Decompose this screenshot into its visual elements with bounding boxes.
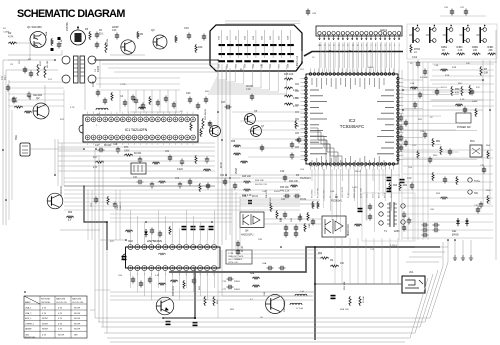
resistor R19 [149, 96, 151, 105]
bus wire thick [304, 52, 403, 57]
svg-text:R32 4W/16: R32 4W/16 [205, 108, 207, 120]
svg-text:CLOCK ON: CLOCK ON [56, 302, 67, 304]
capacitor C29 K0.001 [139, 157, 141, 160]
svg-text:1.2K: 1.2K [61, 39, 63, 44]
IC U2 TC9349AFG [306, 74, 398, 164]
svg-text:0.01: 0.01 [155, 275, 160, 277]
capacitor C4Z [284, 175, 286, 178]
resistor R4B2 [472, 53, 480, 55]
wire mid horizontals [230, 174, 400, 176]
svg-text:C89: C89 [312, 13, 317, 15]
capacitor C1/2 [417, 61, 419, 64]
svg-text:A51: A51 [403, 184, 408, 187]
capacitor C19 K0.001 [251, 94, 253, 97]
resistor R4D [307, 212, 309, 221]
resistor R6B [252, 285, 260, 287]
capacitor C43 [179, 182, 181, 185]
svg-text:C17: C17 [95, 144, 100, 147]
svg-text:0.022: 0.022 [177, 169, 183, 171]
svg-text:4.7/6.3: 4.7/6.3 [390, 245, 397, 247]
op-amp IC1 TA2142FN [83, 115, 198, 142]
svg-text:C77: C77 [222, 289, 227, 291]
svg-text:R5D: R5D [433, 155, 438, 157]
svg-text:OSC1 MUTE: OSC1 MUTE [342, 186, 344, 198]
svg-text:4.7K: 4.7K [58, 318, 63, 320]
capacitor C30 B06 [28, 92, 30, 95]
resistor R4L 47K [270, 203, 272, 212]
wire jk1 feed [315, 283, 402, 285]
resistor R52b [320, 257, 329, 259]
capacitor C25 [205, 97, 207, 100]
resistor R36 [233, 145, 241, 147]
wire bus bottom6 [110, 341, 405, 343]
capacitor C82 [191, 226, 196, 228]
svg-text:C91: C91 [460, 7, 465, 9]
transistor Q2A [121, 40, 135, 54]
resistor R5B [461, 86, 463, 96]
svg-text:OSC = 1M2AM#F: OSC = 1M2AM#F [228, 258, 243, 261]
capacitor C17B [97, 90, 99, 93]
optocoupler Q4 HN2C01FU [240, 212, 264, 228]
svg-text:2B.47: 2B.47 [242, 245, 244, 252]
svg-text:C3.1: C3.1 [19, 59, 21, 64]
svg-text:HO.4W: HO.4W [47, 61, 49, 68]
resistor R91 [158, 283, 166, 285]
svg-text:22B: 22B [258, 239, 262, 241]
wire [430, 79, 483, 81]
resistor R92 [170, 280, 178, 282]
resistor R54 10K [330, 265, 339, 267]
wire stair [310, 128, 326, 162]
svg-text:OTHER_1: OTHER_1 [25, 323, 35, 325]
svg-text:6: 6 [375, 45, 377, 47]
svg-text:C43: C43 [175, 178, 180, 180]
svg-text:BAND: BAND [452, 234, 459, 237]
capacitor C38 [433, 224, 436, 226]
svg-text:24: 24 [180, 111, 183, 113]
svg-text:20.1: 20.1 [99, 34, 104, 36]
svg-text:C90: C90 [444, 7, 449, 9]
capacitor C27 [104, 98, 106, 101]
resistor R4M [304, 223, 306, 232]
svg-text:R7B: R7B [445, 75, 450, 77]
svg-text:R77: R77 [110, 241, 115, 243]
svg-text:C13: C13 [112, 29, 117, 32]
svg-text:HN2C01FU: HN2C01FU [348, 224, 350, 236]
svg-text:PB.01: PB.01 [355, 171, 362, 173]
svg-text:C63: C63 [244, 63, 246, 68]
wire bus bottom [95, 240, 448, 318]
capacitor C32 0.022 [181, 159, 183, 162]
svg-text:USA_2: USA_2 [25, 312, 32, 315]
wire [44, 85, 46, 103]
capacitor C42b [284, 195, 287, 197]
svg-text:2200P: 2200P [112, 27, 119, 29]
svg-text:47K: 47K [93, 166, 98, 169]
capacitor C17 [98, 149, 101, 151]
resistor R56 [432, 172, 434, 181]
capacitor C4E [285, 225, 287, 228]
capacitor C94 [193, 278, 195, 281]
capacitor C45 [207, 183, 209, 186]
svg-text:R5: R5 [85, 28, 89, 31]
svg-text:10K: 10K [473, 49, 478, 52]
svg-text:Q4: Q4 [245, 230, 249, 233]
svg-text:C28: C28 [113, 144, 118, 146]
svg-text:C19: C19 [246, 88, 251, 91]
capacitor C7E [408, 218, 410, 221]
resistor R23b [24, 111, 32, 113]
capacitor C27b [225, 106, 228, 108]
svg-text:R16: R16 [198, 46, 203, 49]
svg-text:C4D: C4D [309, 223, 311, 228]
capacitor C86 [159, 231, 161, 234]
transistor Q23 [446, 27, 448, 43]
svg-text:Q3: Q3 [151, 28, 155, 32]
resistor R10 [175, 35, 177, 43]
svg-text:C17B: C17B [120, 84, 126, 86]
svg-text:JAPAN: JAPAN [25, 328, 32, 331]
transistor Q24 [462, 27, 464, 43]
wire qfp-right [403, 79, 423, 81]
resistor R38 [240, 161, 248, 163]
svg-text:K0.01: K0.01 [441, 87, 447, 89]
resistor R24 [190, 122, 192, 131]
svg-text:L3: L3 [97, 113, 100, 116]
bus wire thick3 [163, 268, 195, 318]
wire [130, 111, 180, 113]
svg-text:P0-1/SEG: P0-1/SEG [312, 189, 314, 198]
svg-text:J6: J6 [410, 63, 413, 65]
capacitor C95 2B.47 [237, 241, 239, 244]
capacitor C81 [182, 226, 187, 228]
resistor R13 180K [14, 106, 23, 108]
svg-text:10K: 10K [340, 263, 345, 265]
svg-text:16: 16 [328, 45, 331, 47]
svg-text:NO/NT: NO/NT [42, 329, 49, 331]
resistor R18 [152, 162, 160, 164]
inductor L3 [96, 108, 108, 110]
svg-text:C66: C66 [270, 35, 272, 40]
svg-text:R62: R62 [68, 212, 73, 214]
capacitor C15 [188, 33, 190, 36]
resistor R4A 10K [290, 185, 298, 187]
svg-text:PS2561#1: PS2561#1 [331, 201, 342, 203]
svg-text:C61: C61 [227, 35, 229, 40]
svg-text:R4L/47K: R4L/47K [266, 189, 268, 198]
svg-text:C8: C8 [10, 64, 14, 66]
svg-text:NO BF: NO BF [74, 308, 81, 310]
svg-text:POWER SW: POWER SW [457, 126, 471, 129]
svg-text:R59: R59 [436, 193, 441, 195]
note box [226, 250, 252, 264]
svg-text:2SD1898(M): 2SD1898(M) [284, 299, 286, 312]
capacitor C12 [13, 97, 15, 100]
svg-text:NO BF: NO BF [74, 329, 81, 331]
transistor Q8 [210, 126, 221, 137]
resistor R41 [158, 181, 166, 183]
svg-text:C4E: C4E [330, 191, 335, 193]
wire right-mid [403, 89, 470, 91]
capacitor C13 2200P [116, 33, 118, 36]
svg-text:LED4: LED4 [368, 67, 374, 69]
svg-text:C67: C67 [279, 63, 281, 68]
svg-text:4.7: 4.7 [68, 220, 72, 222]
svg-text:4.7K: 4.7K [58, 308, 63, 310]
resistor R15D 4.7K [284, 103, 293, 105]
resistor R22 B22P [37, 64, 39, 76]
svg-text:B22P: B22P [40, 60, 42, 66]
svg-text:BAND: BAND [25, 301, 31, 304]
svg-text:C4B: C4B [280, 217, 282, 222]
transistor Q2 S9C383 [33, 103, 49, 119]
dot [194, 317, 196, 319]
svg-text:R6A: R6A [250, 272, 255, 275]
transistor Q3 [153, 35, 167, 49]
capacitor C20 [157, 100, 159, 103]
resistor R15B 4.7K [284, 87, 293, 89]
wire filler [87, 190, 89, 240]
svg-text:C68: C68 [287, 35, 289, 40]
capacitor C16 [203, 34, 205, 37]
wire [110, 54, 145, 56]
resistor R64 [213, 296, 215, 306]
wire [8, 43, 30, 60]
svg-text:C76: C76 [222, 281, 227, 283]
capacitor C4F [295, 225, 297, 228]
svg-text:NO BF: NO BF [58, 335, 65, 337]
resistor R4B2 10K [312, 201, 314, 209]
capacitor C51 [224, 179, 226, 182]
svg-text:LED1: LED1 [380, 28, 387, 32]
svg-text:NO/NT: NO/NT [42, 323, 49, 325]
svg-text:C7B: C7B [434, 65, 439, 67]
svg-text:R15 10K: R15 10K [284, 73, 294, 76]
svg-text:K0.01: K0.01 [252, 196, 259, 198]
resistor R7C [295, 120, 297, 129]
svg-text:47K: 47K [476, 87, 480, 89]
wire [3, 59, 55, 61]
capacitor C77 22B/4 [227, 286, 230, 288]
capacitor C4 [124, 100, 126, 103]
capacitor C42 [151, 182, 153, 185]
resistor R10A [105, 42, 107, 53]
svg-text:C53: C53 [300, 169, 305, 171]
svg-text:R1: R1 [3, 28, 7, 30]
right column parts [400, 115, 402, 118]
svg-text:1: 1 [399, 45, 401, 47]
wire [415, 246, 448, 248]
capacitor C11 20.1 [7, 85, 9, 88]
svg-text:JK1: JK1 [409, 270, 414, 274]
svg-text:2SC2142: 2SC2142 [60, 185, 63, 196]
wire [350, 283, 402, 285]
transistor Q11 2SC2142 [47, 193, 63, 209]
svg-text:R5E: R5E [486, 190, 491, 192]
capacitor C2B [261, 145, 263, 148]
wire [30, 148, 84, 150]
capacitor C28 [117, 147, 119, 150]
wire [264, 218, 322, 220]
wire [407, 61, 497, 63]
svg-text:C4Z: C4Z [262, 191, 267, 193]
svg-text:4.7K: 4.7K [8, 35, 14, 39]
svg-text:S9C383: S9C383 [33, 94, 43, 97]
capacitor C23 [189, 97, 191, 100]
resistor R7 10K [480, 66, 482, 76]
svg-text:L7 1uH: L7 1uH [296, 308, 303, 310]
wire [2, 60, 4, 225]
capacitor C44 [189, 179, 191, 182]
diode D3 20.1 [96, 32, 98, 35]
svg-text:4.7K: 4.7K [42, 313, 47, 315]
svg-text:SCHEMATIC DIAGRAM: SCHEMATIC DIAGRAM [17, 8, 125, 20]
svg-text:SW: SW [474, 192, 479, 195]
svg-text:R36: R36 [231, 141, 236, 143]
wire bus bottom2 [98, 242, 443, 322]
diode D7 [144, 231, 148, 234]
capacitor C7C [298, 137, 300, 140]
svg-text:J50M: J50M [236, 168, 238, 174]
svg-text:C66: C66 [118, 275, 123, 277]
svg-text:P45 10K: P45 10K [280, 187, 289, 189]
capacitor C22 [173, 102, 175, 105]
wire bus bottom3 [101, 270, 438, 327]
svg-text:P43 2.2K: P43 2.2K [280, 191, 290, 193]
svg-text:C68: C68 [287, 63, 289, 68]
test point TUN+ [468, 178, 472, 182]
svg-text:C63: C63 [244, 35, 246, 40]
wire qfp left [232, 111, 306, 113]
resistor R17 47K [95, 161, 104, 163]
resistor R2 4.7K [8, 42, 17, 44]
svg-text:42NB: 42NB [97, 66, 100, 72]
svg-text:TC9349AFC: TC9349AFC [340, 124, 364, 129]
wire verticals left-bottom [94, 150, 96, 318]
svg-text:K3.0B47: K3.0B47 [420, 77, 429, 79]
transistor Q2 2SB736 [71, 30, 86, 45]
resistor R28 [203, 169, 211, 171]
resistor R27 [195, 155, 197, 164]
wire [454, 240, 456, 255]
svg-text:PS2561#1: PS2561#1 [300, 178, 311, 180]
transistor Q1 S9C383 [30, 32, 46, 48]
crystal X2 box [131, 163, 146, 174]
svg-text:BB4/FT BAD: BB4/FT BAD [25, 336, 36, 339]
transistor Q7 [251, 126, 262, 137]
resistor R26 [138, 107, 146, 109]
switch POWER SW [456, 113, 471, 123]
resistor R81 [169, 226, 171, 235]
ground [469, 255, 473, 260]
resistor R62 4.7 [66, 216, 74, 218]
bus wire thick2 [314, 247, 316, 340]
svg-text:C62: C62 [236, 35, 238, 40]
svg-text:20K: 20K [489, 49, 494, 52]
capacitor C19 [142, 103, 144, 106]
svg-text:R4A: R4A [45, 31, 48, 36]
wire [218, 291, 315, 293]
svg-text:9: 9 [361, 45, 363, 47]
svg-text:L5 1uH: L5 1uH [363, 296, 365, 303]
svg-text:R4S 18K: R4S 18K [255, 180, 264, 182]
svg-text:14: 14 [338, 45, 341, 47]
svg-text:R4-2W 2.2K: R4-2W 2.2K [255, 184, 267, 186]
svg-text:4.7K: 4.7K [58, 323, 63, 325]
capacitor C56 [122, 256, 127, 258]
svg-text:NO BF: NO BF [74, 318, 81, 320]
svg-text:C1V: C1V [407, 178, 412, 180]
capacitor C5 [132, 95, 134, 98]
resistor R5A 47K [451, 86, 453, 96]
svg-text:4.7K: 4.7K [293, 97, 298, 100]
svg-text:26.47: 26.47 [221, 162, 223, 168]
svg-text:0.022: 0.022 [472, 101, 478, 103]
svg-text:x4: x4 [414, 51, 417, 54]
svg-text:C17B: C17B [93, 81, 95, 87]
svg-text:C54: C54 [408, 167, 413, 169]
capacitor C31 [169, 155, 171, 158]
svg-text:R53 18K: R53 18K [344, 281, 346, 290]
svg-text:R5C: R5C [458, 83, 463, 85]
wire [240, 199, 320, 201]
resistor R16 [195, 44, 197, 53]
svg-text:C4F: C4F [291, 217, 293, 222]
resistor R53 18K [349, 296, 351, 306]
capacitor C3.2 [30, 71, 32, 74]
wire [90, 309, 95, 311]
svg-text:T1: T1 [384, 230, 388, 233]
wire center down [217, 250, 219, 318]
svg-text:12: 12 [347, 45, 350, 47]
capacitor C90 top corner [451, 9, 453, 12]
svg-text:Q7: Q7 [261, 125, 265, 128]
svg-text:R65: R65 [230, 309, 235, 311]
jumper block J.8MP x 16 [210, 25, 302, 71]
svg-text:1K: 1K [430, 117, 433, 119]
switch SW1 [20, 143, 30, 156]
capacitor C37 [422, 224, 425, 226]
wire [100, 239, 126, 241]
svg-text:R51: R51 [436, 141, 441, 143]
capacitor C57 [166, 321, 171, 323]
svg-text:1.27M: 1.27M [228, 253, 234, 255]
inductor L7 1uH [290, 303, 302, 305]
wire qfp-down [311, 169, 313, 181]
capacitor C85 [151, 228, 153, 231]
svg-text:NIR: NIR [74, 335, 78, 337]
svg-text:4: 4 [385, 45, 387, 47]
svg-text:4269: 4269 [394, 230, 400, 233]
svg-text:SW1: SW1 [15, 134, 18, 140]
capacitor C4B [284, 212, 286, 215]
svg-text:HN2C01FU: HN2C01FU [241, 234, 254, 237]
svg-text:K0.001: K0.001 [134, 153, 142, 155]
wire bus bottom5 [107, 278, 428, 338]
wire led-qfp [320, 42, 322, 68]
wire [8, 50, 62, 55]
svg-text:Q6: Q6 [254, 110, 258, 113]
resistor R14 [111, 92, 113, 101]
svg-text:R45 10K: R45 10K [242, 176, 251, 178]
resistor R15C 4.7K [284, 95, 293, 97]
svg-text:OSM+OSC = 447E: OSM+OSC = 447E [228, 256, 244, 258]
svg-text:C65: C65 [262, 35, 264, 40]
svg-text:TUN+: TUN+ [474, 180, 481, 183]
svg-text:R7B: R7B [452, 67, 457, 69]
capacitor C58 [193, 322, 198, 324]
capacitor C91 [132, 277, 134, 280]
